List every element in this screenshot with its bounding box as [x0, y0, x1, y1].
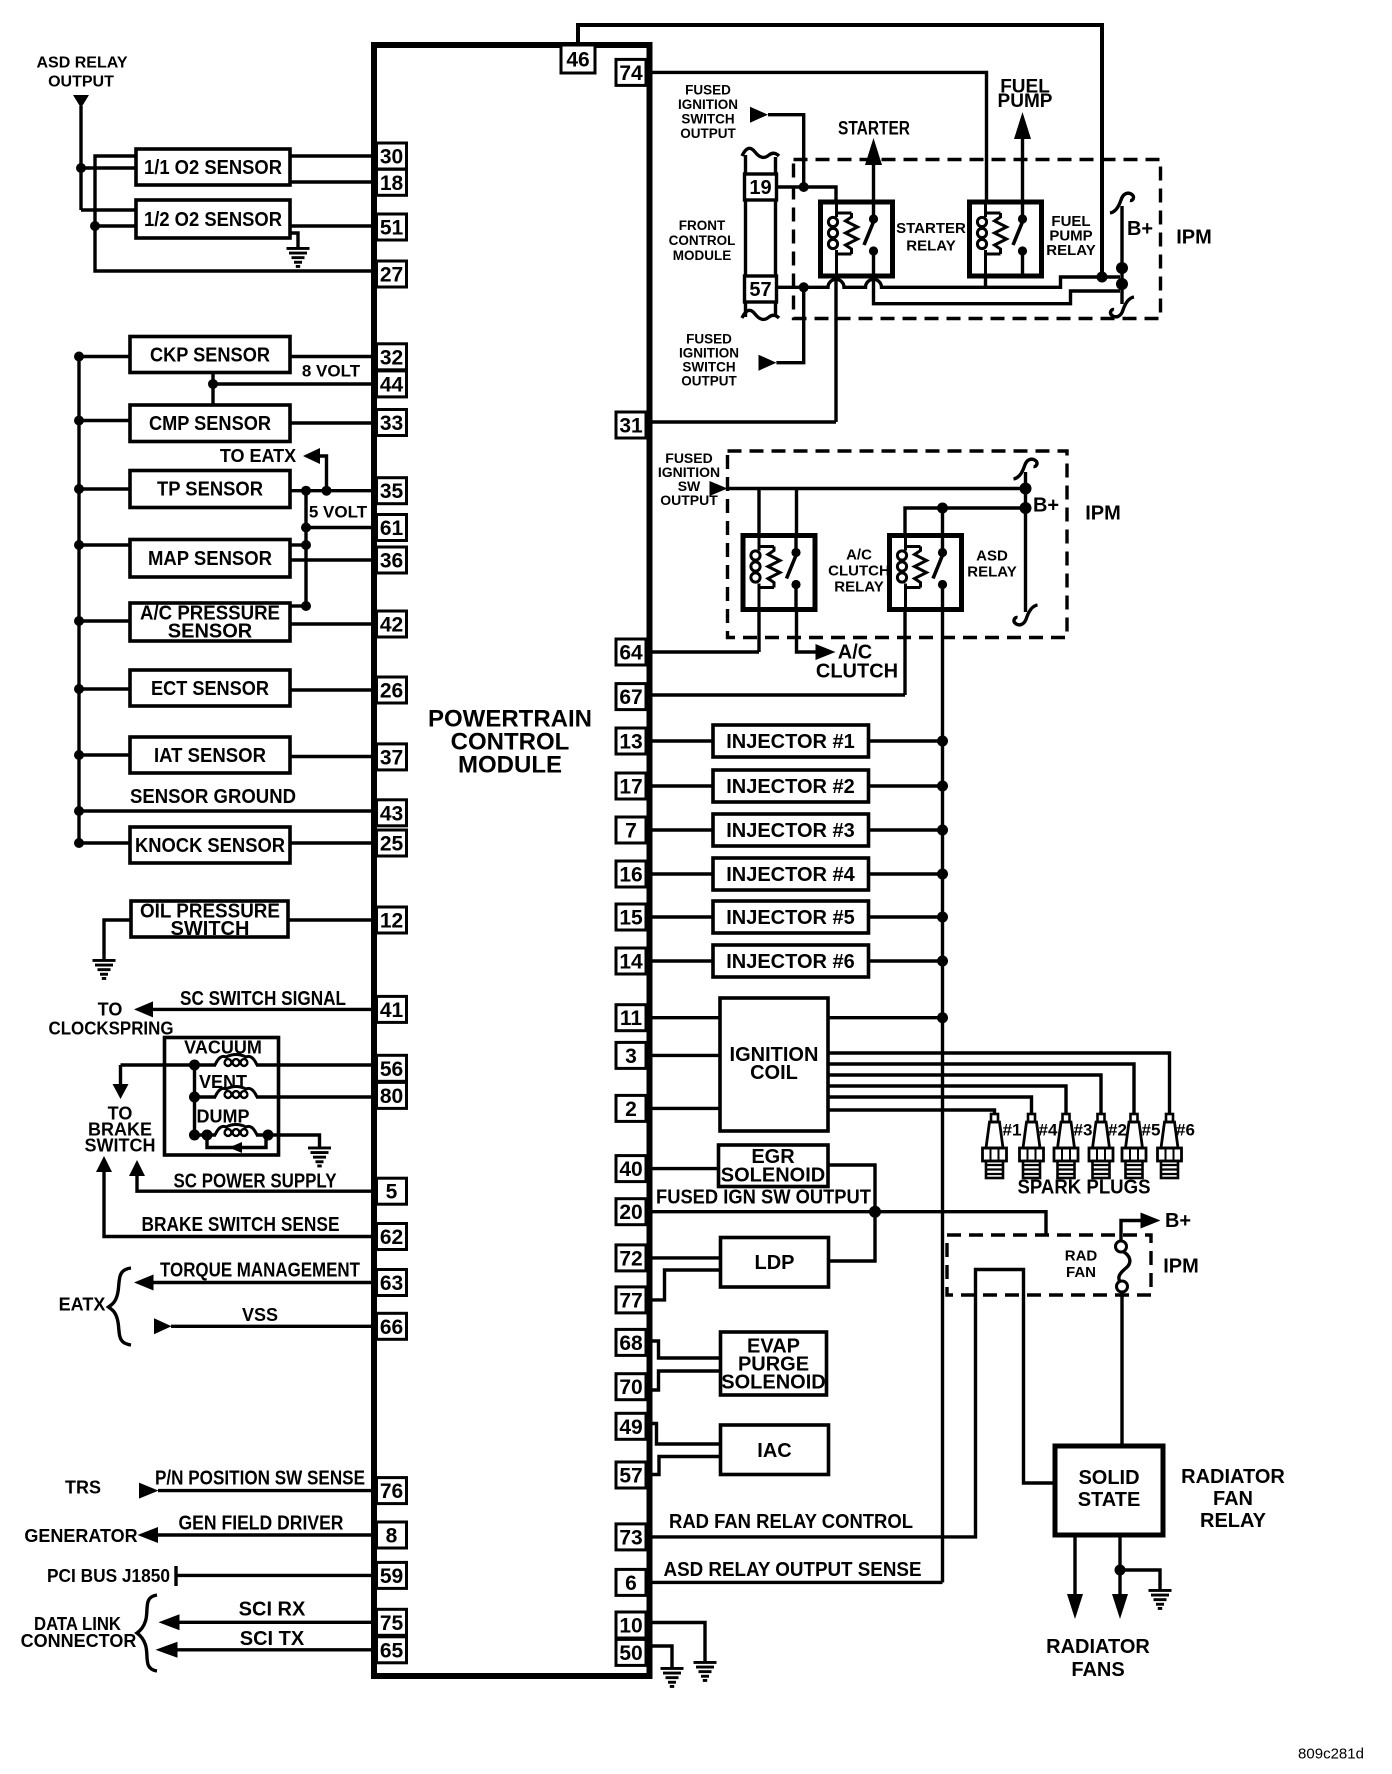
- arrow generator (left): [138, 1527, 159, 1543]
- svg-text:EATX: EATX: [59, 1295, 106, 1315]
- wire pin 40 to EGR solenoid: [649, 1167, 719, 1170]
- pin 62: [377, 1224, 407, 1250]
- svg-text:MAP SENSOR: MAP SENSOR: [148, 548, 273, 570]
- pin 8: [377, 1522, 407, 1548]
- wire SC switch signal pin 41: [152, 1008, 374, 1011]
- label STARTER RELAY: [896, 220, 966, 255]
- pin 43: [377, 800, 407, 826]
- injector #6: [713, 945, 869, 977]
- pin 27: [377, 261, 407, 287]
- wire pin 73 rad fan relay control: [649, 1270, 1055, 1537]
- svg-text:ASD: ASD: [976, 548, 1008, 565]
- B+ terminal upper IPM: [1110, 193, 1134, 317]
- node A/C pressure rail junction: [74, 616, 84, 626]
- wire rail to CMP sensor: [79, 419, 130, 422]
- svg-text:DUMP: DUMP: [197, 1107, 250, 1127]
- svg-text:SOLID: SOLID: [1078, 1467, 1139, 1489]
- node B+ junction B: [1116, 278, 1128, 290]
- svg-text:TRS: TRS: [65, 1478, 101, 1498]
- wire O2 sensor return rail: [95, 156, 374, 271]
- node injector 3 rail junction: [937, 825, 948, 836]
- pin 20: [616, 1199, 646, 1225]
- svg-text:7: 7: [625, 820, 637, 843]
- sensor A/C pressure: [130, 603, 290, 643]
- svg-text:26: 26: [380, 680, 403, 703]
- wire oil pressure switch to ground: [104, 920, 131, 959]
- wire EGR solenoid to fused ign sw line: [828, 1165, 875, 1212]
- svg-text:50: 50: [619, 1642, 642, 1665]
- svg-text:SENSOR GROUND: SENSOR GROUND: [130, 786, 296, 808]
- wire drop to A/C clutch relay switch: [795, 489, 798, 538]
- wire starter relay switch output to B+: [874, 274, 1121, 304]
- svg-text:2: 2: [625, 1098, 637, 1121]
- arrow brake switch sense (up): [96, 1156, 112, 1172]
- pin 56: [377, 1055, 407, 1081]
- RAD FAN IPM dashed box: [947, 1235, 1151, 1295]
- relay A/C clutch K3: [743, 536, 815, 610]
- wire B+ to rad fan fuse: [1121, 1221, 1141, 1242]
- svg-text:8: 8: [386, 1525, 398, 1548]
- wire rail to A/C pressure sensor: [79, 619, 130, 622]
- node fused ignition junction on 19 line: [799, 182, 809, 192]
- wire 5 volt to pin 61: [306, 526, 374, 529]
- svg-text:49: 49: [619, 1416, 642, 1439]
- svg-text:37: 37: [380, 746, 403, 769]
- relay starter K1: [821, 202, 893, 276]
- node injector 6 rail junction: [937, 956, 948, 967]
- wire pin 2 to ignition coil: [649, 1107, 720, 1110]
- node injector 2 rail junction: [937, 781, 948, 792]
- svg-text:IAT SENSOR: IAT SENSOR: [154, 745, 267, 767]
- svg-text:TO EATX: TO EATX: [220, 446, 296, 466]
- wire solid state to radiator fan 2: [1118, 1535, 1121, 1596]
- wire coil secondary to plug 5: [828, 1064, 1134, 1114]
- svg-text:B+: B+: [1033, 495, 1059, 517]
- svg-text:14: 14: [619, 951, 643, 974]
- svg-text:46: 46: [566, 49, 589, 72]
- wire sensor ground to pin 43: [79, 809, 374, 812]
- injector #2: [713, 770, 869, 802]
- wire junction to 1/2 O2 sensor: [95, 224, 136, 227]
- brace data link connector: [137, 1595, 157, 1671]
- wire pin 72 to LDP: [649, 1256, 721, 1259]
- node injector 4 rail junction: [937, 869, 948, 880]
- svg-text:ASD RELAY: ASD RELAY: [37, 55, 128, 72]
- wire dump solenoid line: [195, 1133, 269, 1136]
- wire injector 5 to ASD rail: [869, 915, 943, 918]
- node MAP rail junction: [74, 540, 84, 550]
- wire 1/1 O2 to pin 30: [290, 154, 374, 157]
- B+ terminal A/C IPM: [1014, 459, 1038, 625]
- svg-text:STARTER: STARTER: [838, 119, 910, 140]
- svg-text:80: 80: [380, 1085, 403, 1108]
- svg-text:P/N POSITION SW SENSE: P/N POSITION SW SENSE: [155, 1467, 365, 1489]
- wire coil secondary to plug 2: [828, 1075, 1101, 1114]
- node 5 volt pin 61 junction: [301, 523, 311, 533]
- ground O2 sensor: [287, 247, 310, 268]
- pin 16: [616, 861, 646, 887]
- arrow fused ignition upper (right): [750, 107, 768, 123]
- EVAP purge solenoid box: [721, 1332, 827, 1395]
- svg-text:FUSED IGN SW OUTPUT: FUSED IGN SW OUTPUT: [656, 1187, 871, 1209]
- spark plug 1: [983, 1114, 1007, 1178]
- sensor IAT: [130, 737, 290, 773]
- wire P/N position pin 76: [158, 1489, 374, 1492]
- svg-text:IPM: IPM: [1085, 503, 1121, 525]
- wire ignition coil B+ feed from ASD rail: [828, 1016, 943, 1019]
- svg-text:FRONT: FRONT: [679, 218, 726, 233]
- injector #1: [713, 725, 869, 757]
- spark plug 3: [1054, 1114, 1078, 1178]
- wire A/C pressure to pin 42: [290, 622, 374, 625]
- pin 65: [377, 1637, 407, 1663]
- svg-text:42: 42: [380, 614, 403, 637]
- node dump rail junction: [189, 1130, 200, 1141]
- ignition coil box: [720, 998, 828, 1131]
- wire vacuum solenoid line: [121, 1063, 375, 1066]
- svg-text:RELAY: RELAY: [967, 564, 1016, 581]
- wire oil pressure switch to pin 12: [288, 918, 374, 921]
- wire to brake switch feed: [119, 1065, 122, 1084]
- svg-text:16: 16: [619, 864, 642, 887]
- svg-text:VSS: VSS: [242, 1305, 278, 1325]
- wire pin 50 to ground: [649, 1646, 672, 1667]
- arrow dump bypass (left): [229, 1142, 242, 1153]
- svg-text:INJECTOR #5: INJECTOR #5: [726, 907, 855, 929]
- svg-text:SWITCH: SWITCH: [171, 918, 250, 940]
- node injector 1 rail junction: [937, 736, 948, 747]
- svg-text:FUSED: FUSED: [685, 83, 731, 98]
- svg-text:SPARK PLUGS: SPARK PLUGS: [1018, 1177, 1151, 1199]
- svg-text:#2: #2: [1108, 1121, 1127, 1140]
- pin 68: [616, 1329, 646, 1355]
- wire fused ign sw to B+ A/C IPM: [728, 487, 1024, 490]
- node ASD switch feed junction: [937, 503, 948, 514]
- wire rad fan fuse to solid state relay: [1120, 1292, 1123, 1446]
- arrow radiator fan 1 (down): [1067, 1594, 1083, 1619]
- svg-text:SWITCH: SWITCH: [682, 360, 735, 375]
- wire VSS pin 66: [171, 1325, 374, 1328]
- pin 57b: [616, 1462, 646, 1488]
- sensor CMP: [130, 405, 290, 442]
- wire drop to A/C clutch relay coil: [757, 489, 760, 538]
- wire 1/2 O2 ground stub: [290, 233, 298, 247]
- pin 35: [377, 478, 407, 504]
- svg-text:ASD RELAY OUTPUT SENSE: ASD RELAY OUTPUT SENSE: [664, 1559, 922, 1581]
- svg-text:10: 10: [619, 1615, 642, 1638]
- node B+ A/C junction lower: [1020, 502, 1032, 514]
- node 5 volt top junction: [301, 486, 311, 496]
- arrow radiator fan 2 (down): [1112, 1594, 1128, 1619]
- wire pin 68 to EVAP solenoid: [649, 1341, 721, 1358]
- terminal tick PCI bus: [174, 1566, 177, 1586]
- pin 12: [377, 907, 407, 933]
- brace EATX: [109, 1268, 132, 1345]
- wire 1/2 O2 to pin 51: [290, 224, 374, 227]
- svg-text:1/2 O2 SENSOR: 1/2 O2 SENSOR: [144, 209, 283, 231]
- injector #3: [713, 814, 869, 846]
- svg-text:#4: #4: [1039, 1121, 1058, 1140]
- node CMP rail junction: [74, 416, 84, 426]
- svg-text:74: 74: [619, 62, 643, 85]
- svg-text:B+: B+: [1127, 218, 1153, 240]
- node coil feed rail junction: [937, 1012, 948, 1023]
- node dump left loop junction: [202, 1130, 213, 1141]
- svg-text:STARTER: STARTER: [896, 220, 966, 237]
- wire CKP to pin 32: [290, 355, 374, 358]
- wire ECT to pin 26: [290, 688, 374, 691]
- wire injector 3 pin side: [649, 828, 713, 831]
- node junction on ASD output rail: [76, 163, 86, 173]
- wire pin 70 to EVAP solenoid: [649, 1371, 721, 1390]
- wire 8 volt to pin 44: [213, 382, 374, 385]
- svg-text:44: 44: [380, 373, 404, 396]
- pin 44: [377, 371, 407, 397]
- pin 73: [616, 1524, 646, 1550]
- svg-text:18: 18: [380, 172, 404, 195]
- pin 31: [616, 412, 646, 438]
- EGR solenoid box: [719, 1145, 829, 1187]
- pin 63: [377, 1270, 407, 1296]
- sensor TP: [130, 471, 290, 508]
- svg-text:A/C: A/C: [846, 547, 872, 564]
- wire ASD output rail: [649, 610, 943, 1583]
- sensor MAP: [130, 540, 290, 578]
- pin 25: [377, 830, 407, 856]
- wire 5 volt to MAP sensor: [290, 543, 306, 546]
- IPM dashed box upper: [794, 160, 1161, 319]
- arrow to EATX (left): [303, 448, 320, 464]
- svg-text:INJECTOR #6: INJECTOR #6: [726, 951, 855, 973]
- svg-text:IPM: IPM: [1176, 227, 1212, 249]
- wire rail to IAT sensor: [79, 753, 130, 756]
- wire IAT to pin 37: [290, 755, 374, 758]
- wire coil secondary to plug 6: [828, 1053, 1170, 1114]
- svg-text:62: 62: [380, 1226, 403, 1249]
- arrow starter (up): [865, 138, 882, 165]
- label A/C CLUTCH: [816, 642, 898, 683]
- spark plug 4: [1020, 1114, 1044, 1178]
- pin 42: [377, 611, 407, 637]
- wire gen field driver pin 8: [157, 1533, 374, 1536]
- svg-text:#6: #6: [1176, 1121, 1195, 1140]
- svg-text:MODULE: MODULE: [458, 752, 562, 779]
- svg-text:6: 6: [625, 1572, 637, 1595]
- IAC box: [721, 1425, 829, 1475]
- pin 18: [377, 169, 407, 195]
- svg-text:5 VOLT: 5 VOLT: [309, 503, 368, 522]
- svg-text:66: 66: [380, 1316, 403, 1339]
- LDP box: [721, 1238, 829, 1288]
- pin 3: [616, 1042, 646, 1068]
- pin 33: [377, 410, 407, 436]
- wire coil secondary to plug 3: [828, 1086, 1066, 1114]
- node junction on O2 return rail: [90, 221, 100, 231]
- arrow VSS (right): [154, 1318, 172, 1334]
- svg-text:70: 70: [619, 1376, 642, 1399]
- svg-text:31: 31: [619, 415, 643, 438]
- wire injector 6 to ASD rail: [869, 959, 943, 962]
- wire injector 1 to ASD rail: [869, 739, 943, 742]
- wire starter relay switch to starter: [872, 163, 875, 204]
- pin 41: [377, 996, 407, 1022]
- svg-text:GENERATOR: GENERATOR: [24, 1526, 137, 1546]
- node dump right junction: [263, 1130, 274, 1141]
- label FUSED IGNITION SW OUTPUT A/C: [658, 450, 720, 508]
- wire injector 1 pin side: [649, 739, 713, 742]
- wire pin 57 line to B+: [777, 277, 1121, 287]
- wire SCI TX pin 65: [177, 1648, 374, 1651]
- svg-text:5: 5: [386, 1181, 398, 1204]
- svg-text:20: 20: [619, 1201, 642, 1224]
- svg-text:RADIATOR: RADIATOR: [1181, 1466, 1285, 1488]
- pin 51: [377, 214, 407, 240]
- label RAD FAN: [1065, 1248, 1098, 1282]
- pin 77: [616, 1287, 646, 1313]
- svg-text:SC POWER SUPPLY: SC POWER SUPPLY: [174, 1170, 338, 1192]
- pin 13: [616, 728, 646, 754]
- wire solid state to radiator fan 1: [1073, 1535, 1076, 1596]
- label ASD RELAY OUTPUT: [37, 55, 128, 91]
- svg-text:27: 27: [380, 264, 403, 287]
- arrow to brake switch (down): [113, 1084, 129, 1099]
- svg-text:68: 68: [619, 1332, 643, 1355]
- wire injector 2 to ASD rail: [869, 784, 943, 787]
- svg-text:INJECTOR #4: INJECTOR #4: [726, 864, 855, 886]
- arrow A/C clutch (right): [816, 644, 836, 660]
- pin 11: [616, 1005, 646, 1031]
- svg-text:72: 72: [619, 1247, 642, 1270]
- svg-text:57: 57: [749, 279, 771, 301]
- svg-text:63: 63: [380, 1272, 403, 1295]
- svg-text:RAD: RAD: [1065, 1248, 1098, 1265]
- svg-text:CLUTCH: CLUTCH: [816, 661, 898, 683]
- spark plug 6: [1158, 1114, 1182, 1178]
- arrow fuel pump (up): [1014, 112, 1031, 139]
- pin 50: [616, 1639, 646, 1665]
- svg-text:11: 11: [620, 1007, 643, 1030]
- svg-text:13: 13: [619, 731, 642, 754]
- wire ASD relay output rail: [79, 106, 82, 210]
- label DATA LINK CONNECTOR: [21, 1614, 137, 1651]
- node vent rail junction: [189, 1092, 200, 1103]
- node 8 volt junction: [208, 379, 218, 389]
- svg-text:77: 77: [619, 1289, 642, 1312]
- wire fused ignition upper to pin 19 line: [768, 115, 804, 187]
- svg-text:40: 40: [619, 1158, 642, 1181]
- svg-text:CKP SENSOR: CKP SENSOR: [150, 345, 271, 367]
- pin 19 FCM: [745, 174, 777, 200]
- svg-text:32: 32: [380, 346, 403, 369]
- wire coil secondary to plug 4: [828, 1097, 1032, 1114]
- wire fused ignition lower to 57 line: [776, 287, 803, 362]
- arrow to clockspring (left): [134, 1001, 153, 1017]
- label A/C CLUTCH RELAY: [828, 547, 890, 596]
- wire SCI RX pin 75: [179, 1621, 374, 1624]
- pin 17: [616, 773, 646, 799]
- svg-text:SOLENOID: SOLENOID: [721, 1372, 825, 1394]
- svg-text:KNOCK SENSOR: KNOCK SENSOR: [135, 835, 286, 857]
- pin 30: [377, 143, 407, 169]
- solenoid coil vent: [215, 1087, 257, 1098]
- wire pin 74 to fuel pump relay coil: [649, 72, 987, 204]
- svg-text:61: 61: [380, 517, 404, 540]
- arrow fused ignition lower (right): [759, 355, 777, 371]
- wire SC power supply pin 5: [137, 1175, 374, 1191]
- svg-text:COIL: COIL: [750, 1062, 798, 1084]
- svg-text:IGNITION: IGNITION: [679, 346, 739, 361]
- ground oil pressure switch: [93, 959, 116, 980]
- svg-text:CONTROL: CONTROL: [669, 233, 736, 248]
- svg-text:19: 19: [749, 177, 771, 199]
- injector #5: [713, 901, 869, 933]
- front control module box: [669, 148, 779, 319]
- switch oil pressure: [131, 901, 288, 941]
- wire injector 6 pin side: [649, 959, 713, 962]
- wire pin 77 to LDP: [649, 1270, 721, 1300]
- injector #4: [713, 858, 869, 890]
- solenoid box SC vacuum vent dump: [165, 1038, 279, 1156]
- pin 61: [377, 515, 407, 541]
- wire rail to ECT sensor: [79, 687, 130, 690]
- svg-text:IPM: IPM: [1163, 1256, 1199, 1278]
- sensor 1/1 O2: [136, 149, 290, 185]
- node 5 volt MAP junction: [301, 540, 311, 550]
- ground dump solenoid: [308, 1147, 331, 1168]
- pin 14: [616, 948, 646, 974]
- node TP rail junction: [74, 484, 84, 494]
- relay ASD K4: [890, 536, 962, 610]
- node TO EATX junction: [322, 486, 332, 496]
- arrow SC power to brake switch (up): [129, 1160, 145, 1176]
- pin 26: [377, 677, 407, 703]
- wire to 1/1 O2 sensor: [81, 166, 136, 169]
- arrow SCI RX (left): [159, 1614, 180, 1630]
- node vacuum rail junction: [189, 1060, 200, 1071]
- svg-text:FAN: FAN: [1213, 1488, 1253, 1510]
- svg-text:75: 75: [380, 1612, 404, 1635]
- sensor CKP: [130, 337, 290, 373]
- svg-text:67: 67: [619, 686, 642, 709]
- svg-text:ECT SENSOR: ECT SENSOR: [151, 678, 269, 700]
- pin 6: [616, 1569, 646, 1595]
- pin 64: [616, 639, 646, 665]
- svg-text:SC SWITCH SIGNAL: SC SWITCH SIGNAL: [180, 988, 346, 1010]
- svg-text:VACUUM: VACUUM: [184, 1038, 262, 1058]
- wire rail to MAP sensor: [79, 543, 130, 546]
- svg-text:RELAY: RELAY: [906, 238, 955, 255]
- pin 80: [377, 1082, 407, 1108]
- svg-text:OUTPUT: OUTPUT: [48, 74, 114, 91]
- pin 15: [616, 904, 646, 930]
- label FUSED IGNITION SWITCH OUTPUT lower: [679, 332, 739, 389]
- wire MAP to pin 36: [290, 558, 374, 561]
- svg-text:FUSED: FUSED: [686, 332, 732, 347]
- svg-text:INJECTOR #2: INJECTOR #2: [726, 776, 855, 798]
- pin 5: [377, 1178, 407, 1204]
- svg-text:35: 35: [380, 480, 404, 503]
- sensor ECT: [130, 670, 290, 706]
- pin 7: [616, 817, 646, 843]
- svg-text:RAD FAN RELAY CONTROL: RAD FAN RELAY CONTROL: [669, 1511, 913, 1533]
- svg-text:IAC: IAC: [757, 1440, 791, 1462]
- wire pin 3 to ignition coil: [649, 1054, 720, 1057]
- pin 49: [616, 1413, 646, 1439]
- arrow B+ rad fan (right): [1141, 1213, 1161, 1229]
- wire dump bypass loop: [207, 1135, 266, 1148]
- spark plug 5: [1122, 1114, 1146, 1178]
- wire ASD relay coil feed from B+: [905, 508, 1024, 537]
